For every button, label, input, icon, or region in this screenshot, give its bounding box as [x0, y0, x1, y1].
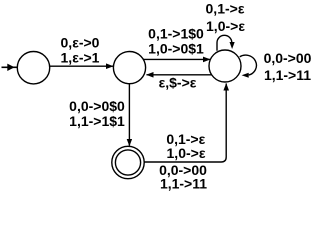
state q1 (start) [17, 51, 49, 83]
state q2 [113, 52, 145, 84]
self-loop q3 right [240, 55, 257, 75]
wire q3 to q2 [147, 74, 212, 76]
svg-text:1,0->ε: 1,0->ε [167, 145, 206, 161]
svg-text:1,1->11: 1,1->11 [264, 67, 311, 83]
svg-text:ε,$->ε: ε,$->ε [159, 74, 197, 90]
svg-text:1,1->1$1: 1,1->1$1 [69, 113, 125, 129]
svg-text:1,0->0$1: 1,0->0$1 [148, 41, 204, 57]
svg-text:1,0->ε: 1,0->ε [206, 18, 245, 34]
svg-text:1,1->11: 1,1->11 [160, 176, 207, 192]
wire q2 to q4 [128, 84, 130, 146]
wire q4 to q3 [144, 84, 226, 163]
start arrow [2, 66, 18, 68]
self-loop q3 top [217, 35, 232, 50]
state q4 (accept) inner [115, 150, 140, 175]
svg-text:0,ε->0: 0,ε->0 [61, 34, 100, 50]
svg-text:0,1->1$0: 0,1->1$0 [148, 25, 204, 41]
wire q2 to q3 [143, 58, 210, 60]
svg-text:0,0->0$0: 0,0->0$0 [69, 98, 125, 114]
svg-text:1,ε->1: 1,ε->1 [61, 50, 100, 66]
svg-text:0,1->ε: 0,1->ε [206, 1, 245, 17]
svg-text:0,0->00: 0,0->00 [264, 50, 312, 66]
state q4 (accept) outer [112, 146, 144, 178]
wire q1 to q2 [50, 65, 113, 67]
state q3 [209, 50, 241, 82]
